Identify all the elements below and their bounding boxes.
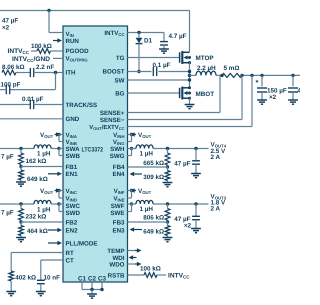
svg-text:VINB: VINB [66,139,77,146]
svg-text:464 kΩ: 464 kΩ [27,228,48,235]
svg-text:10 nF: 10 nF [44,274,61,281]
svg-text:SWB: SWB [66,153,81,160]
svg-text:INTVCC/GND: INTVCC/GND [12,56,50,63]
svg-text:INTVCC: INTVCC [8,48,30,55]
svg-text:47 µF: 47 µF [2,18,18,25]
svg-text:TG: TG [116,55,125,62]
svg-text:EN1: EN1 [66,171,79,178]
svg-text:VIND: VIND [66,195,77,202]
svg-text:CT: CT [66,257,74,264]
svg-text:4.7 µF: 4.7 µF [169,33,187,40]
svg-text:GND: GND [66,116,80,123]
svg-text:EN4: EN4 [112,171,125,178]
svg-text:100 kΩ: 100 kΩ [31,43,52,50]
svg-text:SENSE+: SENSE+ [100,110,125,117]
svg-text:2.2 nF: 2.2 nF [36,64,54,71]
svg-text:TEMP: TEMP [107,248,124,255]
svg-text:SENSE−: SENSE− [100,117,125,124]
svg-text:D1: D1 [144,37,153,44]
svg-text:1 µH: 1 µH [140,206,154,213]
svg-text:*: * [256,78,259,87]
svg-text:RUN: RUN [66,38,80,45]
svg-text:BOOST: BOOST [102,69,124,76]
svg-text:×2: ×2 [269,94,277,101]
svg-text:309 kΩ: 309 kΩ [143,174,164,181]
svg-text:649 kΩ: 649 kΩ [27,176,48,183]
svg-text:665 kΩ: 665 kΩ [143,160,164,167]
svg-text:402 kΩ: 402 kΩ [15,274,36,281]
svg-text:INTVCC: INTVCC [104,30,124,37]
svg-text:232 kΩ: 232 kΩ [26,214,47,221]
svg-text:WDO: WDO [109,261,124,268]
svg-text:SWG: SWG [110,153,125,160]
svg-text:BG: BG [115,90,124,97]
svg-text:×2: ×2 [184,222,192,229]
svg-text:8.06 kΩ: 8.06 kΩ [2,64,25,71]
svg-text:SWE: SWE [110,210,124,217]
svg-text:VOUT: VOUT [40,188,54,195]
svg-text:VING: VING [113,139,125,146]
svg-text:VINH: VINH [113,132,124,139]
svg-text:VOUT: VOUT [138,188,152,195]
svg-text:FB4: FB4 [113,164,125,171]
svg-text:C3: C3 [98,276,107,283]
svg-text:7 µF: 7 µF [1,210,14,217]
svg-text:4: 4 [298,87,301,94]
svg-text:806 kΩ: 806 kΩ [143,215,164,222]
svg-text:47 µF: 47 µF [174,160,190,167]
svg-text:1 µH: 1 µH [37,150,51,157]
svg-text:2 A: 2 A [211,206,221,213]
svg-text:VOUT: VOUT [40,132,54,139]
svg-text:EN2: EN2 [66,227,79,234]
svg-text:2.2 µH: 2.2 µH [197,65,216,72]
svg-text:FB3: FB3 [113,219,125,226]
svg-text:100 pF: 100 pF [1,81,21,88]
svg-text:5 mΩ: 5 mΩ [224,65,240,72]
svg-text:100 kΩ: 100 kΩ [140,266,161,273]
svg-text:MTOP: MTOP [196,55,214,62]
svg-text:0.01 µF: 0.01 µF [22,96,44,103]
svg-text:×2: ×2 [2,25,10,32]
svg-text:EN3: EN3 [112,227,125,234]
svg-text:FB1: FB1 [66,164,78,171]
svg-text:2 A: 2 A [211,154,221,161]
svg-text:VOUTPRG: VOUTPRG [66,56,89,63]
svg-text:MBOT: MBOT [196,91,215,98]
svg-text:FB2: FB2 [66,219,78,226]
svg-text:1 µH: 1 µH [37,206,51,213]
svg-text:ITH: ITH [66,69,76,76]
svg-text:0.1 µF: 0.1 µF [153,62,171,69]
svg-text:SWF: SWF [111,203,125,210]
svg-text:TRACK/SS: TRACK/SS [66,102,98,109]
svg-text:SWD: SWD [66,210,81,217]
svg-text:VOUT: VOUT [138,132,152,139]
svg-text:SWH: SWH [110,146,125,153]
svg-text:VINC: VINC [66,188,77,195]
svg-text:SWA: SWA [66,146,81,153]
svg-text:VOUT/EXTVCC: VOUT/EXTVCC [89,124,124,131]
svg-text:162 kΩ: 162 kΩ [26,158,47,165]
svg-text:C2: C2 [88,276,97,283]
svg-text:SW: SW [115,77,125,84]
svg-text:LTC3372: LTC3372 [82,146,104,153]
svg-text:PGOOD: PGOOD [66,48,90,55]
svg-text:7 µF: 7 µF [1,154,14,161]
svg-text:RT: RT [66,250,74,257]
svg-text:VINA: VINA [66,132,77,139]
svg-text:VINE: VINE [113,195,124,202]
svg-text:1 µH: 1 µH [140,150,154,157]
svg-text:VINF: VINF [114,188,125,195]
svg-text:INTVCC: INTVCC [168,272,190,279]
svg-text:649 kΩ: 649 kΩ [143,229,164,236]
svg-text:C1: C1 [78,276,87,283]
svg-text:RSTB: RSTB [108,272,125,279]
svg-text:PLL/MODE: PLL/MODE [66,240,98,247]
svg-text:SWC: SWC [66,203,81,210]
